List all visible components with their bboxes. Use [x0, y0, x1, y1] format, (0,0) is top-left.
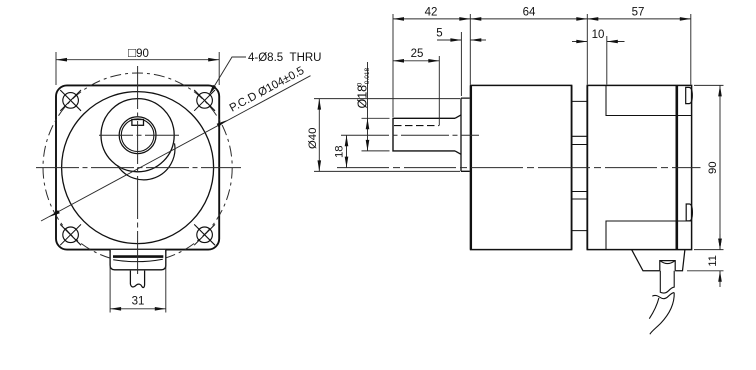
side view: joint band left line	[571, 85, 573, 249]
dimension 25: extension line	[438, 56, 440, 126]
dimension 90 square: extension lines	[55, 52, 57, 85]
side view: cable bushing lip arc	[660, 261, 675, 264]
svg-text:11: 11	[707, 255, 719, 267]
leader 4-dia8.5 THRU	[209, 57, 246, 95]
dimension 42: extension lines	[392, 14, 394, 117]
dimension 11: extension line	[687, 270, 724, 272]
front view: P.C.D dashed circle dia 104	[43, 73, 232, 262]
dimension 11: dimension lines outside arrows	[718, 234, 722, 287]
front view: bottom terminal cover tab	[110, 250, 166, 270]
dimension dia18: dimension line	[366, 62, 370, 151]
side view: motor shell step top	[606, 85, 692, 115]
svg-text:57: 57	[632, 6, 645, 18]
dimension 90: dimension line	[718, 85, 722, 249]
front view: terminal cover curved edge	[113, 259, 163, 261]
dimension 64: dimension line	[470, 17, 587, 21]
front view: terminal cover thick edge line	[113, 255, 163, 258]
side view: joint band tick lines	[572, 101, 588, 230]
dimension text dia18 with tolerance	[355, 67, 371, 108]
dimension 57: extension line	[690, 14, 692, 85]
side view: gearbox housing outline	[471, 85, 572, 249]
front view: horizontal centerline of shaft	[99, 134, 182, 136]
dimension 64: extension line	[586, 14, 588, 85]
side view: joint band right line	[586, 85, 588, 249]
front view: shaft keyway slot	[132, 120, 144, 126]
front view: cable stub with break line	[130, 271, 144, 288]
front view: mounting hole bottom-right dia 8.5	[194, 224, 215, 245]
dimension 5: dimension lines outside arrows	[437, 38, 486, 42]
svg-text:0: 0	[356, 83, 363, 87]
dimension 57: dimension line	[587, 17, 691, 21]
svg-text:42: 42	[425, 6, 438, 18]
dimension 31: extension lines	[109, 253, 111, 313]
dimension dia40: extension lines	[314, 98, 460, 100]
svg-text:31: 31	[132, 296, 145, 308]
svg-text:25: 25	[411, 48, 424, 60]
svg-text:5: 5	[436, 28, 442, 40]
svg-text:10: 10	[592, 29, 605, 41]
dimension 10: extension line	[606, 36, 608, 85]
front view: eccentric gear arc inside boss	[118, 143, 175, 180]
dimension 42: dimension line	[393, 17, 470, 21]
dimension 90 square: dimension line with arrows	[56, 58, 219, 62]
side view: output boss dia 40 face	[461, 98, 470, 171]
side view: output shaft dia 18	[393, 118, 455, 151]
side view: motor shell step bottom	[606, 221, 692, 250]
svg-text:90: 90	[707, 161, 719, 174]
front view: mounting hole top-left dia 8.5	[60, 90, 81, 111]
dimension 18 offset: dimension line	[345, 135, 349, 167]
side view: cable bushing	[660, 261, 675, 271]
side view: motor housing outline	[587, 85, 691, 249]
dimension dia40: dimension line	[318, 99, 322, 172]
front view: output boss circle dia 40	[101, 99, 174, 172]
side view: shaft root cone	[455, 115, 461, 154]
svg-text:18: 18	[334, 145, 346, 158]
side view: motor rear face thick line	[675, 85, 678, 249]
front view: vertical centerline	[137, 66, 139, 277]
side view: cable bend outer curve	[650, 293, 674, 335]
side view: end cap clip top	[686, 87, 693, 103]
side view: shaft keyway flat dashed line	[394, 125, 439, 127]
side view: gearbox front face thick line	[470, 85, 472, 249]
dimension 31: dimension line with arrows	[110, 307, 166, 311]
side view: cable break lower tilde	[652, 293, 674, 299]
front view: mounting hole top-right dia 8.5	[194, 90, 215, 111]
side view: cable with break and bend	[660, 271, 674, 293]
side view: bottom terminal cover	[632, 250, 685, 271]
front view: shaft chamfer circle inner	[121, 119, 154, 152]
P.C.D leader diagonal line	[41, 76, 311, 221]
side view: cable bend inner curve	[649, 298, 659, 319]
side view: shaft centerline	[341, 134, 479, 136]
svg-text:64: 64	[523, 6, 536, 18]
dimension 25: dimension line	[393, 59, 439, 63]
front view: gearbox body circle	[62, 92, 214, 244]
svg-text:Ø40: Ø40	[307, 128, 319, 149]
side view: body centerline	[337, 167, 701, 169]
dimension dia18: extension stubs	[362, 117, 390, 119]
front view: shaft circle dia 18 outer	[119, 117, 156, 154]
side view: end cap clip bottom	[686, 204, 692, 221]
svg-text:□90: □90	[128, 45, 149, 60]
dimension 10: dimension lines outside arrows	[572, 40, 625, 44]
front view: mounting hole bottom-left dia 8.5	[60, 224, 81, 245]
dimension 5: extension line	[460, 32, 462, 96]
front view: flange square 90x90	[56, 85, 219, 249]
front view: horizontal centerline of body	[36, 167, 241, 169]
dimension 90: extension lines	[694, 84, 724, 86]
svg-text:-0.018: -0.018	[364, 67, 371, 86]
svg-text:P.C.D Ø104±0.5: P.C.D Ø104±0.5	[228, 65, 307, 115]
svg-text:Ø18: Ø18	[355, 85, 369, 109]
svg-text:4-Ø8.5 THRU: 4-Ø8.5 THRU	[248, 52, 322, 64]
